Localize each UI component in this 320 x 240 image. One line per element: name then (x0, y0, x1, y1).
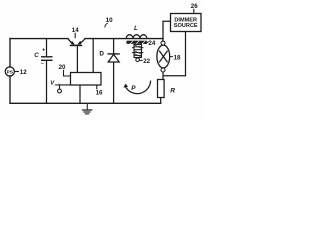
wire control box to bottom rail (79, 85, 81, 103)
wire capacitor branch upper (46, 39, 48, 57)
svg-text:16: 16 (96, 90, 103, 97)
wire junction to dimmer source (163, 21, 171, 38)
svg-text:L: L (134, 25, 138, 32)
svg-text:24: 24 (148, 40, 155, 47)
inductor L (126, 35, 147, 39)
lamp 18 (157, 45, 170, 68)
svg-text:C: C (34, 52, 39, 59)
svg-text:R: R (170, 88, 175, 95)
transistor 14 (68, 39, 85, 44)
control box 16 (71, 73, 102, 86)
wire lamp to dimmer return (163, 32, 186, 76)
wire left side upper (9, 39, 11, 68)
node Vref terminal (58, 89, 62, 93)
svg-text:SOURCE: SOURCE (174, 23, 198, 29)
wire rail to control box (92, 39, 94, 73)
diode D (108, 53, 120, 55)
resistor R (158, 80, 165, 98)
wire resistor to bottom rail (160, 98, 162, 104)
svg-text:18: 18 (174, 55, 181, 62)
label 24 leader arrow (146, 42, 149, 44)
label 26 leader (193, 9, 195, 14)
power flow arrow P (125, 81, 150, 94)
diode D branch wire upper (113, 39, 115, 54)
svg-text:−: − (41, 61, 44, 67)
node 22 terminal (136, 58, 140, 62)
svg-text:+: + (42, 48, 45, 54)
node 16 stub (96, 85, 98, 89)
node 20 lead (64, 70, 71, 76)
wire top rail right segment (85, 38, 163, 40)
wire junction to lamp (162, 39, 164, 42)
ground (82, 104, 92, 114)
wire top rail left segment (10, 38, 68, 40)
wire bottom rail (10, 102, 161, 104)
svg-text:D: D (99, 50, 104, 57)
svg-text:12: 12 (20, 69, 28, 76)
wire transistor to control box (76, 46, 78, 72)
lamp 18 bottom electrode (161, 68, 165, 72)
svg-text:26: 26 (191, 3, 198, 10)
dimmer source box (171, 14, 202, 32)
transformer 24 top electrode bar (127, 41, 147, 44)
svg-text:P: P (131, 85, 136, 92)
label 22 leader (140, 59, 143, 61)
wire lamp to resistor (162, 72, 164, 80)
transformer 24 body (134, 45, 142, 58)
svg-text:22: 22 (143, 58, 150, 65)
wire diode to bottom rail (113, 62, 115, 103)
label 18 leader (170, 56, 173, 58)
lamp 18 top electrode (161, 41, 165, 45)
svg-text:PS: PS (7, 70, 13, 75)
source PS (5, 67, 14, 76)
wire capacitor branch lower (46, 61, 48, 104)
label 10 leader (105, 23, 108, 28)
wire left side lower (9, 76, 11, 103)
capacitor C (41, 57, 53, 61)
svg-text:ref: ref (55, 83, 60, 87)
label 14 leader (74, 33, 76, 38)
wire Vref to box (60, 85, 71, 89)
svg-text:14: 14 (72, 27, 79, 34)
svg-text:10: 10 (106, 17, 114, 24)
node 12 leader (15, 71, 19, 73)
svg-text:20: 20 (59, 64, 66, 71)
